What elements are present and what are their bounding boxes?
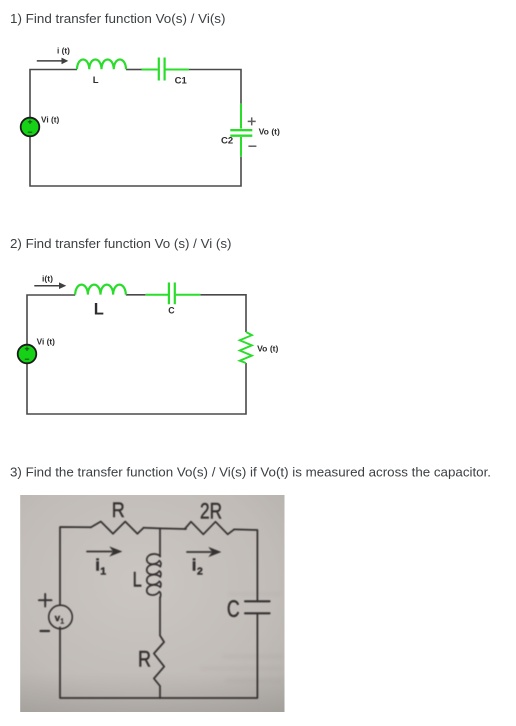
svg-text:2: 2 xyxy=(197,566,203,578)
svg-text:3) Find the transfer function: 3) Find the transfer function Vo(s) / Vi… xyxy=(10,465,491,480)
svg-text:1: 1 xyxy=(100,566,106,578)
svg-text:1) Find transfer function Vo(s: 1) Find transfer function Vo(s) / Vi(s) xyxy=(10,11,226,26)
svg-text:R: R xyxy=(112,499,125,522)
svg-text:Vi (t): Vi (t) xyxy=(37,337,56,347)
svg-text:Vi (t): Vi (t) xyxy=(41,115,60,125)
svg-text:1: 1 xyxy=(60,618,64,625)
svg-text:L: L xyxy=(93,75,99,86)
svg-text:2R: 2R xyxy=(200,498,222,523)
svg-text:i (t): i (t) xyxy=(57,45,70,55)
svg-text:C: C xyxy=(168,306,175,316)
svg-text:i: i xyxy=(192,555,197,574)
svg-text:R: R xyxy=(138,647,151,672)
svg-text:C1: C1 xyxy=(175,75,188,86)
svg-text:Vo (t): Vo (t) xyxy=(257,343,278,353)
svg-text:C2: C2 xyxy=(221,136,233,147)
svg-text:Vo (t): Vo (t) xyxy=(259,127,280,137)
svg-text:L: L xyxy=(133,568,142,592)
svg-text:i: i xyxy=(95,555,100,574)
svg-text:L: L xyxy=(94,301,104,319)
svg-text:2) Find transfer function Vo (: 2) Find transfer function Vo (s) / Vi (s… xyxy=(10,236,232,251)
svg-text:i(t): i(t) xyxy=(42,273,53,283)
svg-text:C: C xyxy=(227,596,240,623)
